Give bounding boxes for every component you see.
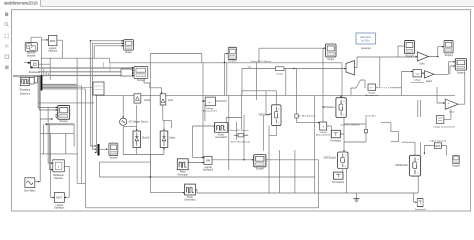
svg-text:Scope9: Scope9 [110, 157, 119, 159]
svg-text:1e-05 s.: 1e-05 s. [361, 39, 371, 43]
svg-text:powergui: powergui [361, 47, 371, 50]
svg-text:Series RLC Branch: Series RLC Branch [230, 129, 250, 132]
svg-text:Impulse: Impulse [27, 55, 36, 57]
svg-text:Operator2: Operator2 [203, 168, 214, 171]
svg-text:Series RLC Branch1: Series RLC Branch1 [231, 140, 252, 143]
svg-text:Sine Wave: Sine Wave [24, 190, 36, 193]
svg-text:GBT/Diode4: GBT/Diode4 [322, 107, 335, 109]
svg-text:Repeating: Repeating [20, 89, 31, 92]
svg-text:Relational: Relational [53, 174, 64, 177]
svg-text:>=: >= [415, 72, 419, 76]
svg-text:stabilizernew2019: stabilizernew2019 [4, 1, 38, 6]
svg-text:Terminator1: Terminator1 [415, 208, 427, 211]
svg-text:Scope6: Scope6 [452, 165, 461, 167]
svg-text:Logical: Logical [49, 48, 57, 50]
svg-text:Scope8: Scope8 [256, 168, 265, 171]
svg-text:Pulse: Pulse [180, 172, 186, 174]
svg-text:Measurement2: Measurement2 [316, 134, 331, 137]
svg-text:NOT: NOT [50, 39, 56, 43]
svg-text:Scope1: Scope1 [60, 120, 69, 123]
svg-text:Diode2: Diode2 [277, 74, 284, 76]
svg-text:+ -: + - [370, 86, 373, 90]
svg-text:Generator1: Generator1 [184, 199, 196, 202]
svg-text:Scope5: Scope5 [405, 55, 414, 58]
svg-text:Operator1: Operator1 [54, 207, 65, 210]
svg-text:GBT/Diode2: GBT/Diode2 [395, 165, 408, 167]
svg-text:Logical Operator3: Logical Operator3 [430, 140, 447, 143]
svg-text:Series RLC: Series RLC [365, 115, 377, 118]
svg-text:Resistance: Resistance [29, 71, 41, 74]
svg-text:Discrete: Discrete [27, 52, 36, 55]
svg-text:Gotod: Gotod [144, 99, 151, 102]
svg-text:Terminator: Terminator [330, 139, 341, 142]
svg-text:Gain: Gain [419, 63, 425, 66]
svg-text:Operator: Operator [54, 177, 63, 180]
svg-text:Series RLC 2 Branch: Series RLC 2 Branch [251, 60, 272, 63]
svg-text:Terminator2: Terminator2 [332, 181, 345, 184]
svg-text:Diode: Diode [169, 138, 176, 140]
svg-text:Pulse: Pulse [218, 134, 224, 136]
svg-text:+: + [322, 125, 324, 129]
svg-text:Discrete,: Discrete, [360, 35, 371, 39]
svg-text:Scope7: Scope7 [457, 71, 466, 74]
svg-text:Scope10: Scope10 [228, 60, 237, 62]
svg-text:Measurement1: Measurement1 [202, 110, 217, 113]
svg-text:measurement: measurement [411, 81, 425, 84]
svg-text:GBT/Diode: GBT/Diode [259, 115, 271, 117]
svg-text:GBT/Diode1: GBT/Diode1 [324, 157, 337, 159]
svg-text:Generator2: Generator2 [215, 136, 227, 139]
svg-text:Pulse: Pulse [187, 197, 193, 199]
svg-text:Generator: Generator [178, 173, 189, 176]
svg-text:Scope4: Scope4 [444, 54, 453, 57]
svg-text:Scope: Scope [327, 58, 334, 61]
svg-text:Measurement: Measurement [365, 94, 379, 97]
svg-text:OR: OR [206, 158, 210, 162]
svg-text:Operator: Operator [48, 50, 57, 53]
svg-text:Gain2: Gain2 [449, 111, 456, 113]
svg-text:Goto: Goto [168, 99, 174, 102]
svg-text:Sequence: Sequence [20, 93, 31, 95]
svg-text:Gain1: Gain1 [426, 80, 433, 83]
svg-text:Scope3: Scope3 [137, 80, 146, 82]
svg-text:NOT: NOT [435, 146, 440, 148]
svg-text:NOT: NOT [57, 196, 63, 200]
svg-text:Diode3: Diode3 [142, 138, 150, 140]
svg-text:voltage measurement3: voltage measurement3 [433, 126, 455, 129]
svg-text:AC Voltage Source: AC Voltage Source [129, 121, 149, 124]
svg-text:Serie RLC Branch3: Serie RLC Branch3 [341, 124, 361, 127]
svg-text:+ -: + - [209, 100, 213, 104]
svg-text:Scope: Scope [125, 52, 132, 54]
